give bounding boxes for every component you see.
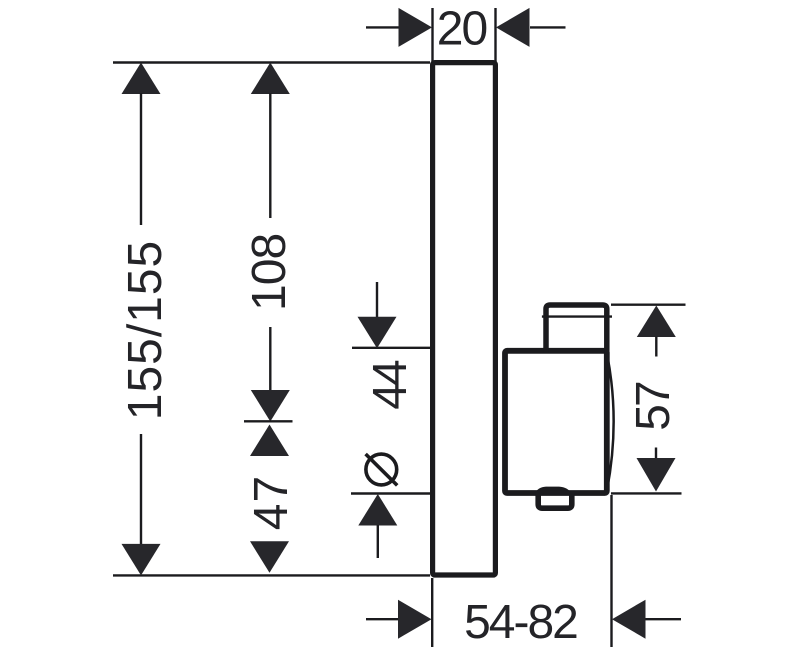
dim 44 down arrow: [358, 317, 397, 349]
dim 20 arrow left: [399, 8, 433, 47]
svg-text:108: 108: [243, 234, 296, 311]
dim 57 upper stem: [655, 337, 657, 357]
dim 44 label: [364, 360, 417, 410]
handle cap: [546, 305, 607, 353]
dim 155/155 stem upper: [140, 93, 142, 225]
handle body: [505, 351, 607, 493]
dim 57 label: [627, 382, 680, 431]
dim 44 upper stem: [376, 282, 378, 318]
dim 44 lower stem: [377, 525, 379, 558]
dim 20 extension line right: [494, 8, 496, 62]
dim 54-82 arrow left: [398, 600, 432, 639]
dim 108 label: [243, 234, 296, 311]
dim 57 top extension line: [611, 304, 686, 306]
dim 57 bottom arrow: [637, 458, 676, 492]
dim 54-82 stem right: [645, 618, 681, 620]
svg-text:47: 47: [245, 475, 298, 530]
handle bottom bump: [535, 487, 572, 494]
extension line bottom (plate bottom): [113, 574, 430, 576]
dim 20 extension line left: [431, 8, 433, 62]
dim 44 bottom tick: [351, 492, 430, 494]
dim 20 stem left: [366, 26, 399, 28]
dim 44 up arrow: [358, 494, 397, 526]
svg-text:155/155: 155/155: [119, 240, 172, 421]
dim 47 up arrow: [250, 425, 289, 457]
dim 47 down arrow: [250, 541, 289, 573]
dim 20 arrow right: [496, 8, 530, 47]
dim 108 top arrow: [251, 63, 290, 95]
extension line top (plate top): [113, 61, 430, 63]
dim 54-82 stem left: [366, 618, 399, 620]
dim 108 stem lower: [269, 327, 271, 391]
dim 54-82 arrow right: [612, 600, 646, 639]
svg-text:44: 44: [364, 360, 417, 410]
handle cap groove line: [542, 315, 612, 317]
svg-text:20: 20: [437, 3, 487, 56]
dim 44 top tick: [352, 347, 430, 349]
dim 155/155 label: [119, 240, 172, 421]
wall plate (side view): [433, 63, 496, 575]
handle grip tab: [538, 493, 572, 508]
diameter symbol: [366, 454, 398, 485]
dim 108 stem upper: [269, 93, 271, 218]
dim 20 stem right: [530, 26, 566, 28]
dim 57 lower stem: [655, 448, 657, 460]
dim 54-82 right extension line: [610, 495, 612, 647]
dim 47 label: [245, 475, 298, 530]
tick between 108 and 47: [244, 420, 293, 422]
dim 155/155 bottom arrow: [122, 544, 161, 576]
handle front curve: [607, 354, 614, 490]
svg-text:54-82: 54-82: [464, 596, 577, 649]
dim 57 bottom extension line: [611, 492, 682, 494]
dim 155/155 stem lower: [140, 434, 142, 545]
svg-text:57: 57: [627, 382, 680, 431]
dim 54-82 left extension line: [431, 578, 433, 647]
dim 108 bottom arrow: [251, 390, 290, 422]
dim 57 top arrow: [637, 306, 676, 338]
dim 155/155 top arrow: [122, 63, 161, 95]
